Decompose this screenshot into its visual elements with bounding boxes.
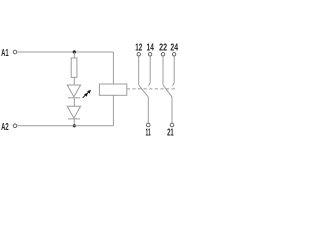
wire coil feed: [112, 52, 114, 84]
svg-text:12: 12: [135, 43, 142, 54]
svg-text:22: 22: [159, 43, 167, 54]
relay coil K1: [99, 84, 126, 95]
svg-text:24: 24: [170, 43, 178, 54]
resistor R1: [71, 58, 77, 77]
wire resistor to LED: [73, 77, 75, 85]
mechanical link (dashed): [127, 88, 175, 90]
terminal A2: [13, 124, 17, 128]
wire 22: [162, 56, 164, 85]
NO contact seat 24: [172, 83, 174, 86]
terminal 12: [137, 53, 140, 56]
wire junction to resistor: [73, 52, 75, 58]
terminal A1: [13, 50, 17, 54]
wire 21 common: [171, 97, 173, 123]
terminal 24: [172, 53, 175, 56]
node junction A1/resistor: [73, 50, 76, 53]
node junction A2/diode: [73, 124, 76, 127]
LED light arrows: [83, 90, 91, 98]
svg-text:11: 11: [146, 127, 151, 138]
LED D1: [67, 85, 80, 98]
terminal 14: [148, 53, 151, 56]
contact lever 1: [139, 85, 148, 97]
svg-text:14: 14: [147, 43, 154, 54]
wire 14: [149, 56, 151, 83]
wire coil return: [112, 95, 114, 126]
wire LED to diode: [73, 98, 75, 106]
wire 11 common: [147, 97, 149, 123]
contact lever 2: [163, 85, 172, 97]
svg-text:A1: A1: [1, 48, 9, 59]
wire 24: [173, 56, 175, 83]
terminal 21: [170, 123, 174, 127]
terminal 11: [146, 123, 150, 127]
svg-text:21: 21: [167, 127, 174, 138]
NO contact seat 14: [148, 83, 150, 86]
wire A1 rail: [17, 51, 113, 53]
diode D2: [67, 106, 80, 119]
wire A2 rail: [17, 125, 113, 127]
wire 12: [138, 56, 140, 85]
svg-text:A2: A2: [1, 122, 9, 133]
wire diode to A2 rail: [73, 119, 75, 126]
terminal 22: [161, 53, 164, 56]
